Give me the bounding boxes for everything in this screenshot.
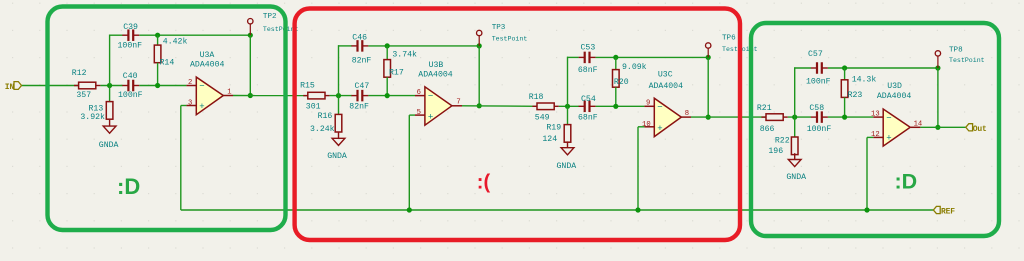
- wire R18 to node A3: [559, 105, 579, 107]
- junction U3C output: [706, 115, 711, 120]
- label R21: [757, 104, 772, 113]
- label C58: [809, 104, 824, 113]
- wire pin10 stub: [638, 126, 644, 128]
- junction pin10 ref rail: [635, 207, 640, 212]
- capacitor C53: [579, 52, 596, 64]
- svg-text:3.92k: 3.92k: [80, 112, 105, 122]
- svg-text:C39: C39: [123, 23, 138, 32]
- svg-text:GNDA: GNDA: [786, 173, 806, 182]
- emote happy stage1: [117, 174, 140, 199]
- label TP8 TestPoint: [949, 57, 985, 64]
- junction R14 top: [155, 33, 160, 38]
- label GNDA stage1: [99, 141, 119, 150]
- op-amp U3B pins: [415, 96, 462, 116]
- testpoint TP8: [935, 51, 940, 68]
- wire TP3 rail down to output: [478, 46, 480, 106]
- wire top rail 3: [828, 67, 938, 69]
- svg-text:REF: REF: [941, 207, 955, 216]
- wire node A4 up: [794, 67, 796, 117]
- node A4 junction: [792, 115, 797, 120]
- pin 3 label: [188, 99, 192, 107]
- svg-text:R21: R21: [757, 104, 772, 113]
- wire stage2b out to R21: [691, 116, 766, 118]
- label R23 value 14.3k: [852, 75, 877, 85]
- green annotation box stage1: [48, 7, 286, 231]
- label 3.24k: [310, 124, 335, 134]
- svg-text:TP8: TP8: [949, 47, 963, 55]
- svg-text:U3B: U3B: [429, 61, 444, 70]
- label C47: [355, 82, 370, 91]
- label 3.92k: [80, 112, 105, 122]
- svg-text:+: +: [886, 134, 891, 144]
- label 357: [76, 91, 91, 100]
- op-amp U3A: [196, 77, 223, 115]
- svg-text:+: +: [657, 124, 662, 134]
- label TP2 TestPoint: [263, 26, 299, 33]
- resistor R12: [74, 82, 100, 89]
- svg-text:82nF: 82nF: [352, 56, 372, 65]
- wire R21 to node A4: [788, 116, 811, 118]
- label C40: [123, 72, 138, 81]
- pin 10 label: [642, 121, 651, 129]
- svg-text:GNDA: GNDA: [327, 152, 347, 161]
- junction TP8 on rail: [935, 65, 940, 70]
- svg-text::D: :D: [117, 174, 140, 199]
- wire top rail 3 left: [794, 67, 811, 69]
- svg-text:R12: R12: [72, 69, 87, 78]
- op-amp U3C pins: [644, 106, 691, 127]
- svg-text:10: 10: [642, 121, 651, 129]
- svg-text:100nF: 100nF: [806, 78, 831, 87]
- resistor R23: [841, 68, 848, 117]
- svg-text:68nF: 68nF: [578, 114, 598, 123]
- label C54: [581, 95, 596, 104]
- svg-text:100nF: 100nF: [118, 42, 143, 51]
- wire C47 to pin6: [368, 95, 415, 97]
- label R13: [89, 105, 104, 114]
- svg-text:ADA4004: ADA4004: [190, 61, 224, 70]
- pin 6 label: [417, 89, 421, 97]
- wire stage1 out to R15: [233, 95, 308, 97]
- svg-text:6: 6: [417, 89, 421, 97]
- wire TP2 rail down to output: [249, 35, 251, 95]
- svg-text:4.42k: 4.42k: [163, 37, 188, 47]
- wire C58 to pin13: [828, 116, 873, 118]
- wire top rail left C39: [109, 34, 123, 36]
- svg-text:301: 301: [306, 103, 321, 112]
- label R14: [160, 59, 175, 68]
- junction pin5 ref rail: [407, 207, 412, 212]
- svg-text:U3A: U3A: [200, 51, 215, 60]
- junction R20 top: [613, 55, 618, 60]
- ground GNDA stage2b: [561, 141, 574, 154]
- label 866: [760, 125, 775, 134]
- wire top rail 2a left: [338, 45, 352, 47]
- svg-text:C53: C53: [581, 44, 596, 53]
- resistor R13: [106, 102, 113, 120]
- wire pin3 stub: [181, 105, 187, 107]
- svg-text:866: 866: [760, 125, 775, 134]
- svg-text:124: 124: [542, 135, 557, 144]
- wire pin5 down to ref rail: [408, 115, 410, 210]
- wire node A1 down to R13: [109, 86, 111, 102]
- label TP3: [492, 24, 506, 32]
- svg-text:14.3k: 14.3k: [852, 75, 877, 85]
- label R16: [318, 112, 333, 121]
- label C57 value 100nF: [806, 78, 831, 87]
- resistor R16: [335, 114, 342, 132]
- svg-text:3: 3: [188, 99, 192, 107]
- testpoint TP3: [477, 30, 482, 46]
- testpoint TP6: [706, 43, 711, 58]
- svg-text:−: −: [657, 103, 662, 113]
- capacitor C40: [122, 80, 139, 92]
- label GNDA stage3: [786, 173, 806, 182]
- wire pin5 stub: [409, 114, 415, 116]
- svg-text:C58: C58: [809, 104, 824, 113]
- svg-text:549: 549: [535, 114, 550, 123]
- label U3A ADA4004: [190, 61, 224, 70]
- svg-text:−: −: [428, 91, 433, 101]
- junction R17 top: [385, 43, 390, 48]
- label U3A: [200, 51, 215, 60]
- svg-text:3.24k: 3.24k: [310, 124, 335, 134]
- resistor R19: [564, 125, 571, 143]
- label R22: [775, 136, 790, 145]
- green annotation box stage3: [751, 23, 999, 236]
- svg-text:GNDA: GNDA: [557, 162, 577, 171]
- svg-text:C47: C47: [355, 82, 370, 91]
- label U3D ADA4004: [877, 92, 911, 101]
- label R18: [529, 93, 544, 102]
- capacitor C57: [811, 62, 828, 74]
- pin 13 label: [871, 111, 880, 119]
- svg-text:7: 7: [456, 99, 460, 107]
- pin 14 label: [914, 121, 923, 129]
- node A3 junction: [565, 104, 570, 109]
- node A1 junction: [107, 83, 112, 88]
- svg-text:TP3: TP3: [492, 24, 506, 32]
- wire node A4 down to R22: [794, 117, 796, 137]
- port IN: [5, 82, 22, 92]
- label TP6 TestPoint: [722, 46, 758, 53]
- resistor R20: [613, 57, 620, 106]
- wire node A3 up: [567, 57, 569, 107]
- junction TP2 on rail: [248, 33, 253, 38]
- svg-text:R19: R19: [546, 124, 561, 133]
- junction TP3 on rail: [477, 43, 482, 48]
- svg-text:1: 1: [227, 88, 231, 96]
- pin 12 label: [871, 131, 880, 139]
- wire node A2 up: [338, 45, 340, 95]
- svg-text:C54: C54: [581, 95, 596, 104]
- wire top rail 2a: [368, 45, 479, 47]
- label C53: [581, 44, 596, 53]
- label GNDA stage2a: [327, 152, 347, 161]
- svg-text:68nF: 68nF: [578, 66, 598, 75]
- label U3C ADA4004: [649, 82, 683, 91]
- testpoint TP2: [248, 19, 253, 36]
- junction U3D output: [935, 125, 940, 130]
- svg-text:357: 357: [76, 91, 91, 100]
- svg-text:R18: R18: [529, 93, 544, 102]
- ground GNDA stage1: [103, 120, 116, 133]
- label C53 value 68nF: [578, 66, 598, 75]
- svg-text:U3D: U3D: [887, 82, 902, 91]
- svg-text:−: −: [199, 82, 204, 92]
- label C46 value 82nF: [352, 56, 372, 65]
- label R19: [546, 124, 561, 133]
- wire node A2 down to R16: [338, 96, 340, 115]
- svg-text:TP2: TP2: [263, 13, 277, 21]
- wire R12 to node A1: [100, 85, 122, 87]
- ground GNDA stage3: [788, 153, 801, 166]
- node A2 junction: [336, 93, 341, 98]
- label 196: [768, 147, 783, 156]
- pin 2 label: [188, 79, 192, 87]
- wire pin10 down to ref rail: [637, 127, 639, 210]
- svg-text:Out: Out: [973, 125, 987, 134]
- wire output to Out port: [920, 126, 965, 128]
- label TP3 TestPoint: [492, 36, 528, 43]
- resistor R14: [154, 35, 161, 85]
- svg-text:2: 2: [188, 79, 192, 87]
- svg-text:+: +: [428, 113, 433, 123]
- port Out: [966, 124, 987, 134]
- node B4 junction: [842, 115, 847, 120]
- label C46: [352, 33, 367, 42]
- svg-text:R16: R16: [318, 112, 333, 121]
- label TP6: [722, 35, 736, 43]
- resistor R18: [532, 103, 558, 110]
- node B1 junction: [155, 83, 160, 88]
- wire top rail 2b: [596, 56, 709, 58]
- svg-text:R17: R17: [389, 69, 404, 78]
- svg-text:GNDA: GNDA: [99, 141, 119, 150]
- op-amp U3B: [425, 87, 452, 125]
- label R15: [300, 82, 315, 91]
- svg-text:100nF: 100nF: [807, 125, 832, 134]
- wire top rail 2b left: [567, 56, 579, 58]
- label U3B: [429, 61, 444, 70]
- wire C40 to pin2: [139, 85, 186, 87]
- svg-text::D: :D: [895, 170, 918, 194]
- pin 5 label: [417, 109, 421, 117]
- resistor R17: [384, 46, 391, 96]
- wire node A3 down to R19: [567, 106, 569, 125]
- label C39: [123, 23, 138, 32]
- svg-text:U3C: U3C: [658, 71, 673, 80]
- label R17: [389, 69, 404, 78]
- wire input from IN port: [22, 85, 80, 87]
- junction TP6 on rail: [706, 55, 711, 60]
- junction R23 top: [842, 65, 847, 70]
- svg-text:−: −: [886, 114, 891, 124]
- svg-text:9.09k: 9.09k: [622, 62, 647, 72]
- capacitor C58: [811, 111, 828, 123]
- svg-text:ADA4004: ADA4004: [649, 82, 683, 91]
- wire ref bottom rail: [181, 209, 934, 211]
- svg-text:100nF: 100nF: [118, 91, 143, 100]
- label C40 value 100nF: [118, 91, 143, 100]
- op-amp U3D pins: [873, 117, 920, 137]
- label TP8: [949, 47, 963, 55]
- svg-text:ADA4004: ADA4004: [877, 92, 911, 101]
- wire R15 to node A2: [330, 95, 352, 97]
- svg-text:5: 5: [417, 109, 421, 117]
- resistor R21: [761, 114, 787, 121]
- label U3C: [658, 71, 673, 80]
- svg-text:R20: R20: [614, 78, 629, 87]
- svg-text:C57: C57: [808, 50, 823, 59]
- label R20: [614, 78, 629, 87]
- capacitor C46: [351, 40, 368, 52]
- capacitor C47: [351, 90, 368, 102]
- label U3B ADA4004: [418, 70, 452, 79]
- label R20 value 9.09k: [622, 62, 647, 72]
- op-amp U3C: [654, 98, 681, 136]
- wire pin12 stub: [867, 136, 873, 138]
- label C57: [808, 50, 823, 59]
- capacitor C39: [122, 29, 139, 41]
- wire TP6 rail down to output: [707, 57, 709, 117]
- resistor R22: [791, 137, 798, 155]
- wire node A1 up: [109, 35, 111, 86]
- emote sad stage2: [477, 171, 491, 193]
- red annotation box stage2: [295, 9, 740, 241]
- label 301: [306, 103, 321, 112]
- junction U3A output: [248, 93, 253, 98]
- pin 7 label: [456, 99, 460, 107]
- svg-text:R15: R15: [300, 82, 315, 91]
- svg-text:C46: C46: [352, 33, 367, 42]
- svg-text:13: 13: [871, 111, 880, 119]
- wire TP8 rail down to output: [937, 68, 939, 127]
- svg-text::(: :(: [477, 171, 491, 193]
- pin 1 label: [227, 88, 231, 96]
- label C54 value 68nF: [578, 114, 598, 123]
- op-amp U3A pins: [186, 86, 233, 106]
- junction U3B output: [477, 103, 482, 108]
- svg-text:196: 196: [768, 147, 783, 156]
- node B3 junction: [613, 104, 618, 109]
- wire top rail C39 to TP2 corner: [139, 34, 250, 36]
- svg-text:TP6: TP6: [722, 35, 736, 43]
- svg-text:82nF: 82nF: [349, 103, 369, 112]
- svg-text:R23: R23: [848, 91, 863, 100]
- port REF: [933, 206, 955, 216]
- label R17 value 3.74k: [392, 49, 417, 59]
- label C39 value 100nF: [118, 42, 143, 51]
- svg-text:TestPoint: TestPoint: [492, 36, 528, 43]
- emote happy stage3: [895, 170, 918, 194]
- svg-text:8: 8: [685, 110, 689, 118]
- label R14 value 4.42k: [163, 37, 188, 47]
- svg-text:+: +: [199, 102, 204, 112]
- svg-text:ADA4004: ADA4004: [418, 70, 452, 79]
- label C47 value 82nF: [349, 103, 369, 112]
- svg-text:3.74k: 3.74k: [392, 49, 417, 59]
- node B2 junction: [385, 93, 390, 98]
- op-amp U3D: [883, 109, 910, 146]
- wire C54 to pin9: [596, 105, 645, 107]
- pin 8 label: [685, 110, 689, 118]
- svg-text:TestPoint: TestPoint: [949, 57, 985, 64]
- svg-text:C40: C40: [123, 72, 138, 81]
- svg-text:R22: R22: [775, 136, 790, 145]
- svg-text:9: 9: [646, 100, 650, 108]
- label R12: [72, 69, 87, 78]
- wire pin3 down to ref rail: [180, 106, 182, 211]
- ground GNDA stage2a: [332, 132, 345, 145]
- label U3D: [887, 82, 902, 91]
- junction pin12 ref rail: [864, 207, 869, 212]
- label R23: [848, 91, 863, 100]
- svg-text:R14: R14: [160, 59, 175, 68]
- label 549: [535, 114, 550, 123]
- label GNDA stage2b: [557, 162, 577, 171]
- label 124: [542, 135, 557, 144]
- wire stage2a out to R18: [462, 105, 538, 108]
- resistor R15: [303, 92, 329, 99]
- label C58 value 100nF: [807, 125, 832, 134]
- pin 9 label: [646, 100, 650, 108]
- svg-text:IN: IN: [5, 83, 15, 92]
- label TP2: [263, 13, 277, 21]
- wire pin12 down to ref rail: [866, 137, 868, 210]
- capacitor C54: [579, 101, 596, 113]
